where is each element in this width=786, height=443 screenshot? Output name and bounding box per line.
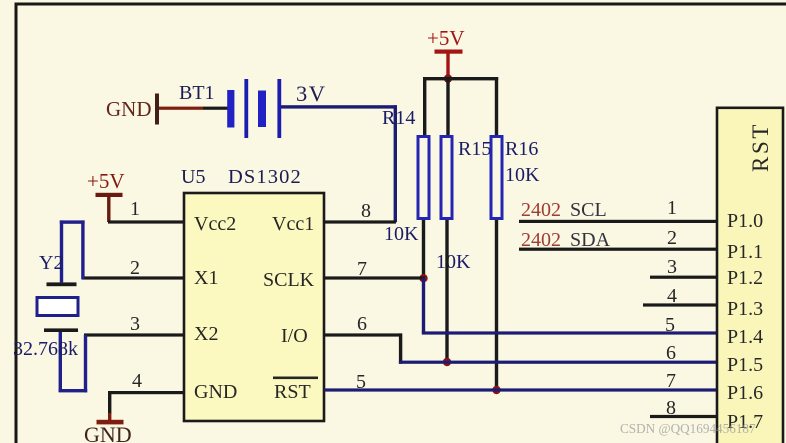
resistor R15 body [441, 137, 452, 219]
crystal Y2 wire bottom vertical [59, 332, 62, 392]
svg-text:U5: U5 [181, 166, 205, 188]
wire pin 3 X2 [84, 333, 184, 336]
svg-text:GND: GND [84, 422, 132, 443]
junction dot R15/IO [443, 358, 451, 366]
svg-text:SCLK: SCLK [263, 269, 315, 291]
power port GND (top left) [106, 94, 159, 125]
svg-text:32.768k: 32.768k [13, 338, 78, 360]
svg-text:R16: R16 [505, 138, 538, 160]
wire pin 7 SCLK [324, 276, 425, 279]
power port +5V (middle) [427, 26, 465, 79]
svg-text:P1.2: P1.2 [727, 267, 763, 289]
svg-text:R14: R14 [382, 107, 415, 129]
wire pin 4 GND [108, 391, 184, 394]
crystal Y2 wire left vertical [60, 220, 63, 282]
wire battery to Vcc1 (horizontal 3V net) [281, 105, 397, 108]
power port GND (bottom) [84, 420, 132, 443]
svg-text:3: 3 [130, 313, 140, 335]
svg-text:P1.1: P1.1 [727, 241, 763, 263]
svg-text:CSDN @QQ1694456187: CSDN @QQ1694456187 [620, 421, 756, 436]
junction dot at +5V header [444, 74, 452, 82]
svg-text:X2: X2 [194, 323, 218, 345]
svg-text:BT1: BT1 [179, 82, 215, 104]
svg-text:I/O: I/O [281, 325, 308, 347]
svg-text:6: 6 [357, 313, 367, 335]
svg-text:R15: R15 [458, 138, 491, 160]
wire SCLK run to header pin 5 [422, 331, 717, 334]
svg-text:2402: 2402 [521, 199, 561, 221]
wire header pin 2 [519, 248, 717, 251]
svg-text:10K: 10K [384, 223, 419, 245]
wire GND to battery (dark part) [203, 107, 228, 110]
svg-text:Vcc2: Vcc2 [194, 213, 236, 235]
svg-text:7: 7 [666, 370, 676, 392]
wire pin 5 RST long run to header [324, 388, 717, 391]
svg-text:8: 8 [361, 200, 371, 222]
crystal Y2 bottom plate [44, 328, 78, 332]
power port +5V (left) [87, 169, 125, 222]
svg-text:P1.3: P1.3 [727, 298, 763, 320]
svg-text:7: 7 [357, 258, 367, 280]
wire GND to battery (red part) [159, 107, 203, 110]
svg-text:1: 1 [667, 197, 677, 219]
wire R14 bottom to SCLK node [422, 220, 425, 279]
svg-text:6: 6 [666, 342, 676, 364]
svg-text:GND: GND [106, 97, 152, 121]
crystal Y2 wire bottom horizontal [59, 389, 88, 392]
net label 2402 SCL [521, 199, 607, 221]
svg-text:+5V: +5V [87, 169, 125, 193]
svg-text:2: 2 [667, 227, 677, 249]
op chip U5 DS1302 body [184, 193, 324, 421]
svg-text:SCL: SCL [570, 199, 607, 221]
svg-text:Vcc1: Vcc1 [272, 213, 314, 235]
svg-text:5: 5 [356, 371, 366, 393]
crystal Y2 wire top horizontal [60, 220, 85, 223]
svg-text:1: 1 [130, 198, 140, 220]
wire resistor header horizontal [423, 77, 498, 80]
svg-text:2: 2 [130, 257, 140, 279]
wire pin 8 Vcc1 [324, 220, 396, 223]
wire I/O run to header pin 6 [399, 361, 717, 364]
wire header to R15 top [446, 79, 449, 135]
battery BT1 plate 4 [277, 79, 281, 138]
sheet border left [15, 3, 18, 443]
connector header P1 body [717, 108, 783, 443]
wire pin 6 I/O [324, 333, 402, 336]
junction dot R16/RST [492, 386, 500, 394]
junction dot R14/SCLK [419, 274, 427, 282]
svg-text:X1: X1 [194, 267, 218, 289]
wire header to R14 top [423, 77, 426, 135]
svg-text:Y2: Y2 [39, 252, 63, 274]
wire header pin 1 [519, 220, 717, 223]
svg-text:10K: 10K [505, 164, 540, 186]
svg-text:GND: GND [194, 381, 237, 403]
svg-text:P1.0: P1.0 [727, 210, 763, 232]
crystal Y2 wire right vertical to X2 [84, 335, 87, 392]
resistor R14 body [418, 137, 429, 219]
crystal Y2 wire X1 vertical [81, 220, 84, 279]
wire header pin 4 stub [643, 303, 717, 306]
svg-text:3V: 3V [296, 81, 327, 106]
wire R16 bottom to RST net [495, 220, 498, 392]
battery BT1 plate 1 [227, 90, 234, 128]
crystal Y2 top plate [47, 282, 77, 286]
svg-text:DS1302: DS1302 [228, 166, 302, 188]
svg-text:P1.5: P1.5 [727, 354, 763, 376]
crystal Y2 body [37, 298, 78, 316]
pin name RST with overbar [273, 377, 318, 404]
svg-text:10K: 10K [436, 251, 471, 273]
wire pin 4 down to ground [108, 392, 111, 414]
svg-text:RST: RST [748, 122, 773, 172]
svg-text:4: 4 [132, 370, 142, 392]
wire header to R16 top [495, 77, 498, 135]
wire R15 bottom to I/O net [445, 220, 448, 364]
svg-text:4: 4 [667, 285, 677, 307]
svg-text:8: 8 [666, 397, 676, 419]
wire pin 1 Vcc2 [108, 220, 184, 223]
svg-text:P1.6: P1.6 [727, 382, 763, 404]
battery BT1 plate 2 [244, 79, 248, 138]
svg-text:+5V: +5V [427, 26, 465, 50]
svg-text:5: 5 [665, 314, 675, 336]
svg-text:3: 3 [667, 256, 677, 278]
wire header pin 8 stub [650, 415, 717, 418]
sheet border top [15, 3, 786, 6]
svg-text:RST: RST [274, 381, 311, 403]
wire SCLK vertical drop [422, 278, 425, 333]
wire I/O vertical drop [399, 333, 402, 363]
wire pin 2 X1 [82, 276, 184, 279]
wire header pin 3 stub [650, 276, 717, 279]
net label 2402 SDA [521, 229, 611, 251]
wire 3V net vertical drop to pin 8 [394, 105, 397, 222]
resistor R16 body [491, 137, 502, 219]
svg-text:P1.4: P1.4 [727, 326, 763, 348]
wire ground red tail [108, 413, 111, 421]
battery BT1 plate 3 [258, 91, 266, 128]
